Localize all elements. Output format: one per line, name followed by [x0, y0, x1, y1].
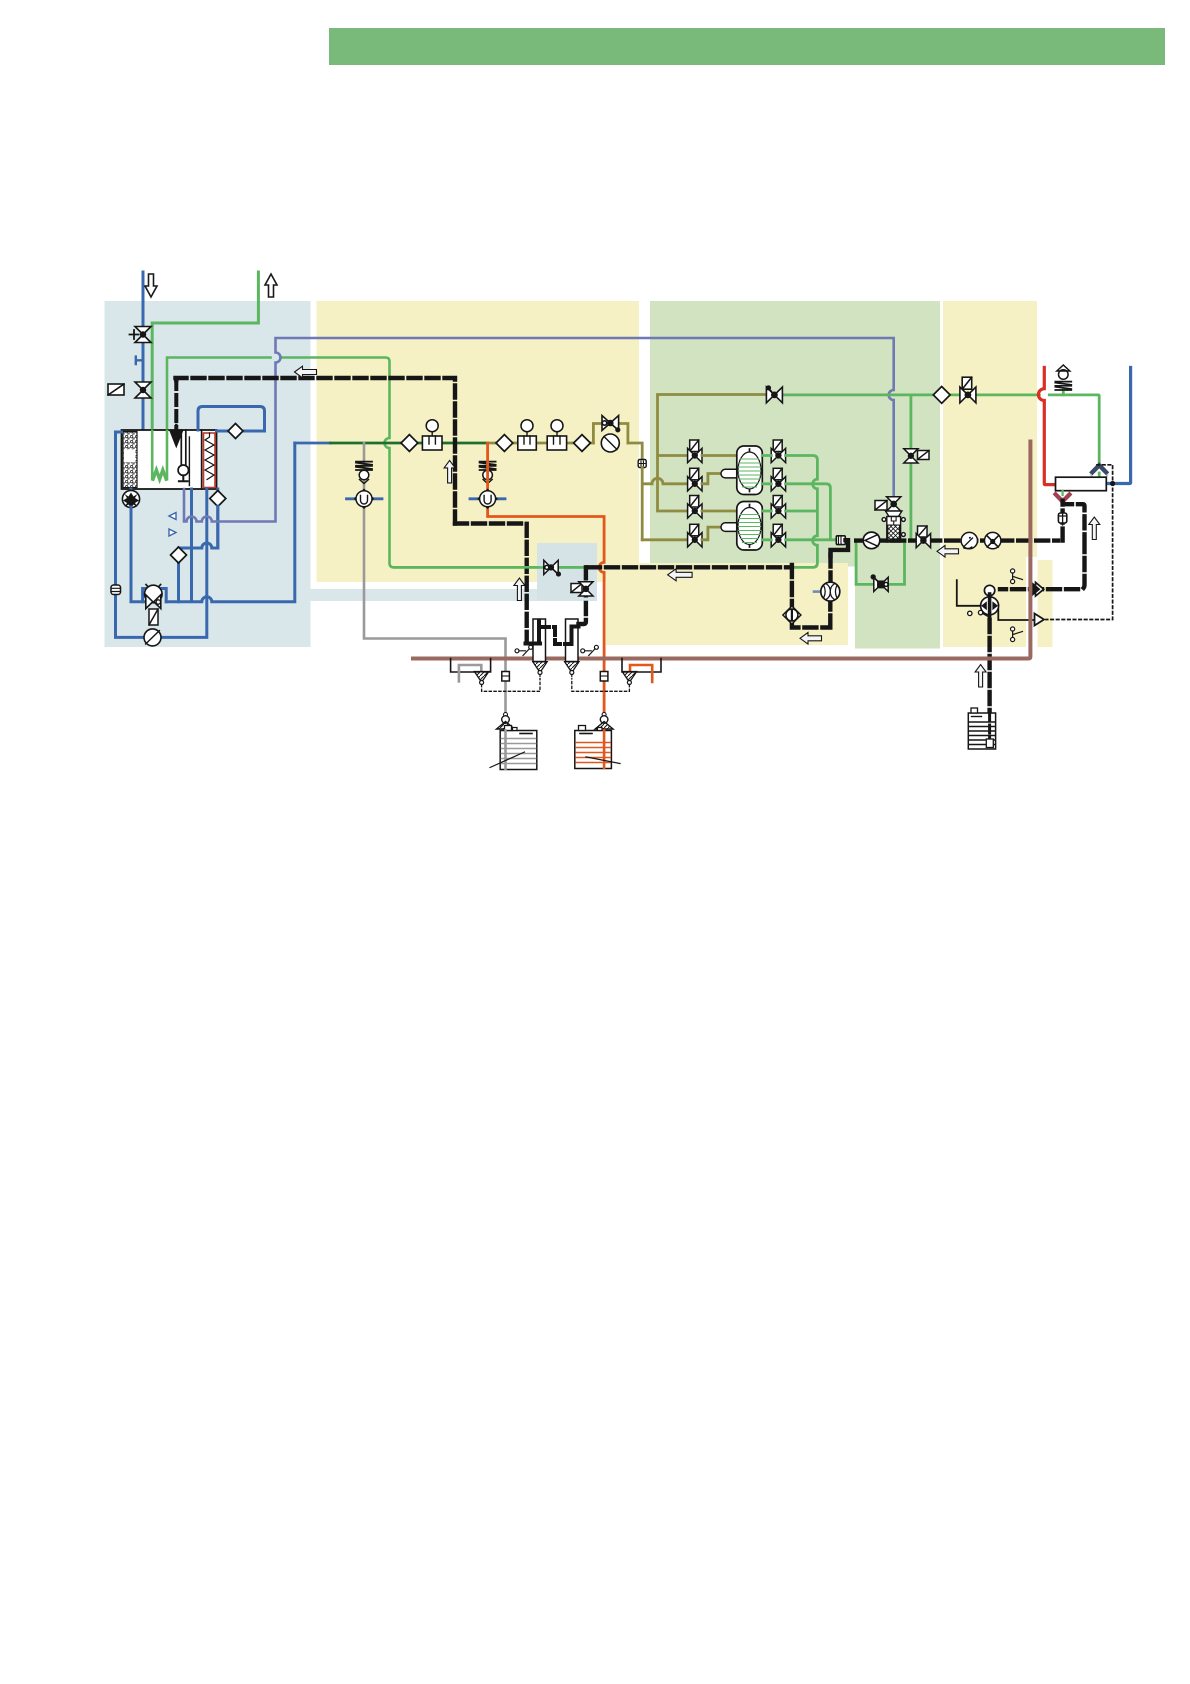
junction dot on dotted crossing	[1110, 481, 1115, 486]
shutoff valve on O2 header	[766, 386, 782, 403]
check valve diamond D2 (below block)	[216, 489, 219, 548]
wire: dotted link funnel1 to yoke2 funnel	[482, 679, 540, 691]
wire: blue left return loop	[116, 432, 207, 637]
valve V1 on blue inlet	[130, 327, 152, 343]
wire: row1 right to green bus	[762, 456, 817, 568]
ventilator block: spring column (red border, zigzag)	[204, 433, 216, 488]
O2 cylinder (black stripes)	[968, 708, 995, 749]
water trap on left return	[111, 585, 121, 595]
chevron: gas inlet (striped, up)	[1091, 465, 1108, 480]
valve V2 (regulator) on blue inlet	[108, 382, 151, 398]
air cylinder (gray)	[490, 726, 537, 770]
arrow: left below main O2 dashed	[937, 546, 959, 558]
sensor triangles beside expiratory line	[169, 513, 176, 520]
zone: O2 supply lower extension (light yellow)	[1038, 560, 1053, 647]
arrow: left on AGS dashed line	[668, 569, 693, 581]
check valve (circle in diamond) on AGS line	[783, 606, 801, 624]
wire: row2 jog to filler capsule 1	[702, 474, 721, 484]
wire: row2 right to green bus	[762, 484, 830, 539]
pressure regulator 2 on row	[518, 420, 537, 450]
wire: green bypass U under dashed line	[856, 541, 904, 584]
arrow: solid right on flush line	[1036, 582, 1044, 596]
AGS blower circle	[814, 582, 840, 601]
header bar	[329, 28, 1165, 65]
wire: olive supply to vaporizer manifold	[658, 397, 689, 512]
plug connector on gray line	[502, 672, 510, 682]
arrow: up beside P1 vertical	[444, 460, 455, 483]
wire: green into outlet box	[1098, 473, 1101, 477]
wire: dotted feedback loop	[1046, 465, 1113, 620]
wire: slate pilot line (purple)	[184, 338, 894, 522]
wall outlet 4 bracket (N2O)	[622, 659, 661, 673]
arrow: flow direction on P1	[295, 366, 317, 378]
N2O cylinder (orange)	[575, 726, 620, 769]
zone: vaporizer block right column (light green)	[855, 563, 940, 649]
pressure regulator 1 on row	[422, 420, 442, 450]
plug connector on orange line	[600, 672, 608, 682]
wire: green fresh-gas to AGS junction	[394, 566, 587, 569]
wire: green O2 down to main dashed line	[910, 463, 913, 539]
chevron: outlet (pink, down)	[1056, 494, 1070, 501]
gauge circle 1 on O2 dashed	[961, 532, 977, 548]
ventilator block: bellows / piston	[178, 430, 202, 489]
wire: olive filler bus B rows 2+4	[642, 468, 688, 540]
O2 valve (vertical, flag right)	[904, 449, 929, 463]
zone: connector band (light blue strip)	[311, 589, 538, 601]
ventilator block: dashed-line target arrow (black, down)	[174, 379, 178, 428]
vaporizer 2 body	[737, 502, 763, 551]
filter / regulator stack	[882, 511, 905, 542]
ventilator block: sorbent column texture	[123, 432, 137, 488]
wire: green stub below box	[1061, 491, 1063, 495]
vaporizer2 outlet valve row4 right	[771, 524, 785, 547]
wall outlet 1 bracket (air)	[451, 659, 491, 673]
wire: mixed gas row - blue segment	[295, 442, 331, 445]
slate-fed valve above filter	[875, 497, 901, 511]
check valve diamond D1 (top right of block)	[198, 407, 265, 432]
wire: red O2 supply line	[1038, 368, 1055, 485]
wire: row4 right to green bus	[762, 538, 836, 541]
flow sensor on orange line	[470, 490, 505, 509]
connector on dashed drop from outlet box	[1058, 511, 1066, 525]
check valve diamond 3 on row	[574, 435, 591, 452]
wire: blue bypass over PEEP valve	[143, 589, 167, 602]
wire: row3 right to green bus	[762, 510, 816, 513]
O2 switch assembly bracket	[957, 580, 980, 606]
shutoff valve 2 on O2 header (with flag)	[960, 377, 976, 403]
zone: AGS scavenging (light yellow)	[606, 563, 848, 645]
needle valve on bypass	[602, 416, 620, 432]
arrow: up beside cylinder dashed	[975, 665, 986, 688]
wire: black dashed P1 to cylinder yoke	[455, 524, 527, 642]
check valve diamond 2 on row	[496, 435, 513, 452]
funnel of outlet 1	[474, 672, 488, 685]
bypass valve (green zone D2)	[871, 575, 888, 592]
pressure regulator 3 on row	[547, 420, 566, 450]
wire: mixed gas row - olive segment	[488, 443, 688, 540]
wire: row1 into vaporizer1	[702, 454, 737, 457]
vaporizer1 outlet valve row1 right	[771, 440, 785, 463]
AGS wall outlet funnel under yoke2	[565, 662, 579, 679]
arrow: gas in (down)	[145, 274, 157, 297]
vaporizer 1 body	[737, 446, 763, 495]
wire: dashed O2 flush branch	[1000, 501, 1085, 589]
gray hose into outlet 1	[459, 665, 481, 682]
wire: blue vertical from block (expiratory)	[190, 489, 193, 601]
wire: fresh gas jog to AGS drop	[831, 540, 849, 556]
wire: thin line from switch to aux port	[998, 609, 1034, 620]
orange hose into outlet 4	[630, 665, 652, 682]
wire: expiratory outlet (green)	[152, 272, 258, 430]
wire: row3 into vaporizer2	[702, 510, 737, 513]
filler capsule 1	[721, 469, 751, 478]
wall gas pipeline (brown)	[413, 442, 1030, 659]
wire: black dashed fresh gas P1 (mixer to ventilator)	[176, 378, 456, 524]
relief valve on gray line	[356, 462, 372, 484]
gauge circle 2 on O2 dashed	[985, 532, 1001, 548]
relief valve on orange line	[480, 462, 496, 484]
wire: dashed down to O2 cylinder	[987, 620, 991, 714]
vaporizer2 outlet valve row3 right	[771, 496, 785, 519]
wire: gray sample line	[364, 443, 506, 713]
aux port open arrow	[1035, 614, 1045, 626]
yoke cross-link	[540, 627, 571, 644]
pump circle on bottom loop	[144, 629, 161, 646]
vaporizer manifold valve row3 left	[688, 496, 702, 519]
shutoff valve on main O2 dashed (flag above)	[916, 526, 930, 548]
pressure relief valve at O2 header (red zone)	[1055, 365, 1071, 395]
arrow: gas out (up)	[265, 274, 277, 297]
blower (circle with star) below block left	[130, 489, 133, 507]
wire: dashed cylinder 2 branch	[579, 567, 586, 624]
vaporizer manifold valve row1 left	[688, 440, 702, 463]
PEEP/APL valve assembly	[145, 585, 163, 626]
zone: O2 supply (light yellow)	[943, 301, 1037, 557]
wire: mixed gas row - dark green segment	[331, 442, 488, 445]
O2 switch valve circle	[981, 585, 999, 620]
arrow: up beside flush branch	[1089, 517, 1100, 540]
zone: gas mixer (light yellow)	[317, 301, 640, 582]
connector on olive drop	[638, 460, 646, 468]
disconnect symbol left of yoke1	[515, 645, 533, 655]
wire: inspiratory inlet (blue) top vertical	[142, 272, 145, 430]
wire: blue from blower down to PEEP valve	[131, 507, 146, 602]
zone: breathing system (light blue)	[105, 301, 311, 647]
AGS wall outlet funnel under yoke1	[533, 662, 547, 679]
funnel of outlet 4	[622, 672, 636, 685]
cylinder yoke 2 (white rect over brown line)	[566, 619, 579, 662]
wire: green branch down from O2 header	[910, 395, 913, 448]
ventilator block: heater coil (green M)	[152, 431, 167, 479]
wire: black dashed from junction to AGS	[588, 554, 831, 628]
disconnect symbol right of yoke2	[581, 645, 599, 655]
zone: vaporizer block (light green)	[650, 301, 940, 567]
vaporizer manifold valve row2 left	[688, 468, 702, 491]
wire: olive/green feed to O2 header	[658, 393, 767, 396]
flow sensor on gray line	[347, 490, 383, 509]
wire: needle valve bypass loop (olive)	[593, 424, 628, 444]
wire: main O2 dashed line (filter to outlet box)	[856, 500, 1062, 541]
cylinder2 shutoff valve (vertical, flag left)	[571, 582, 593, 596]
wire: orange N2O line	[488, 443, 604, 713]
arrow: up beside yoke dashed	[514, 578, 525, 601]
wire: green fresh-gas line G1 from block to vaporizer area	[167, 358, 587, 568]
wire: blue air supply line	[1106, 368, 1130, 484]
pump circle on row	[601, 434, 619, 452]
pressure reducer above N2O cylinder	[595, 713, 613, 730]
port tick on blue inlet	[136, 357, 143, 364]
fresh gas output connector plug	[836, 536, 845, 545]
vaporizer manifold valve row4 left	[688, 524, 702, 547]
check valve diamond on row (O2 line)	[401, 435, 418, 452]
arrow: left below AGS return	[800, 633, 822, 645]
vaporizer1 outlet valve row2 right	[771, 468, 785, 491]
wire: dotted link yoke2 funnel to outlet4 funnel	[572, 682, 630, 692]
ventilator block body	[122, 430, 217, 489]
pressure reducer above air cylinder	[497, 713, 515, 730]
fresh gas shutoff valve (green, C zone)	[544, 560, 561, 576]
wire: blue from PEEP valve to riser with bridge	[166, 443, 295, 602]
switch lever	[968, 610, 991, 618]
wire: row4 jog to filler capsule 2	[702, 527, 721, 540]
wire: blue diamond line down and left with bridge	[179, 506, 218, 602]
O2 supply pump on main line	[863, 532, 880, 549]
filler capsule 2	[721, 523, 751, 532]
check valve diamond on O2 header	[933, 387, 950, 404]
toggle symbol lower	[1011, 627, 1023, 642]
toggle symbol upper	[1011, 569, 1023, 584]
cylinder yoke 1 (white rect over brown line)	[526, 619, 546, 662]
check valve diamond D3	[171, 547, 187, 563]
gas outlet box	[1056, 477, 1107, 491]
zone: cylinder valve block (light blue)	[537, 543, 597, 601]
